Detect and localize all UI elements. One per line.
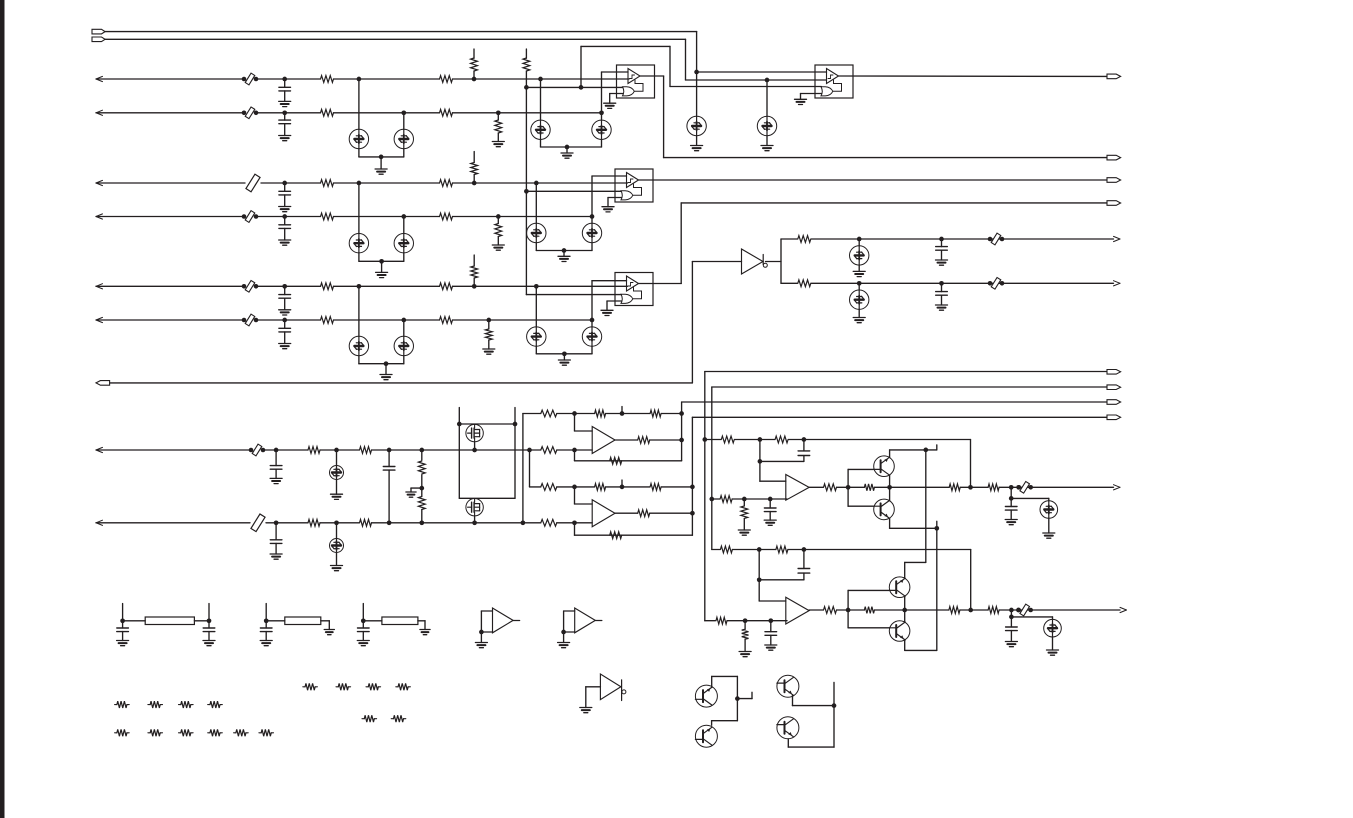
resistor bank C R73 zigzag [398,683,408,690]
wire ch1 out seg c [874,486,949,488]
wire ampA out seg [650,439,682,441]
wire Q5 top lateral [712,675,738,677]
protection diode D11 [582,223,601,242]
node ch1 toprow tap [702,437,707,442]
wire bus2 horizontal [105,38,685,40]
capacitor C2 [279,120,291,124]
wire branchA seg b [811,238,1113,240]
output arrow branchA [1114,236,1121,241]
wire ch2 tail drop [1010,610,1012,617]
wire C17 stub [1010,617,1012,627]
wire ch1 rail seg b [732,498,787,500]
op-amp U1A [617,65,655,98]
wire ch2 +in lead [759,600,786,602]
node ch1 loop tap [758,437,763,442]
wire R51 to ground [744,639,746,651]
wire C4 to ground [284,228,286,240]
wire D3 bottom stub [540,140,542,148]
node row5 cap tap [282,284,287,289]
wire ch1 out seg a [809,486,823,488]
wire row4 seg c [334,216,440,218]
wire supply rail E1 long [925,450,927,563]
resistor R42 [720,496,732,503]
wire U5 bracket bottom [564,631,575,633]
wire R19 stub [488,320,490,329]
wire D4 vertical to U1A +in [601,72,603,120]
wire Q2 emitter drop [889,519,891,529]
node ref bus pair2 tap [524,189,529,194]
resistor R20 [798,236,811,243]
wire row4 seg d [453,216,593,218]
wire D3 drop from row1 [540,79,542,120]
wire row2 seg d [453,112,602,114]
node bus1-opamp U2 junction [694,70,699,75]
wire R11 stub [497,113,499,120]
wire RC filter FL2 left stub [265,604,267,621]
resistor network RC filter FL2 [285,617,321,625]
wire R16 to row5 [473,278,475,286]
wire ch1 toprow seg a [705,439,721,441]
resistor R11 to gnd [495,120,502,133]
capacitor C12 [798,451,810,456]
wire R13 stub [497,217,499,224]
wire Q5 link stub right [737,698,752,700]
wire D2 bottom stub [403,149,405,157]
ground below D16 [853,271,865,276]
wire rail1 stub up [621,407,623,414]
wire ch1 toprow seg b [735,439,775,441]
capacitor C10 [270,540,282,544]
wire U5 bracket top [564,610,575,612]
input arrow row5 [96,284,103,289]
wire ch1 tail drop [1010,487,1012,498]
node ch2 tail mid [1009,615,1014,620]
resistor R5 [321,180,334,187]
wire Q7 link vertical [833,682,835,747]
wire Q7 bottom lateral [793,705,835,707]
resistor R50 [716,617,727,624]
resistor bank A R61 zigzag [150,701,160,708]
input arrow rowL1 [96,447,103,452]
wire C15 lower stub [803,573,805,580]
wire ampB out seg [650,512,693,514]
wire RC filter FL2 C left stub [265,621,267,628]
capacitor RC filter FL2 left [260,628,272,632]
ground at divider center [406,492,416,497]
protection diode D10 [527,223,546,242]
wire C6 stub [284,320,286,328]
resistor R27 [360,519,372,526]
node ch2 base node [846,608,851,613]
connector CN2 clock input [96,381,110,386]
resistor bank D R74 lead [374,718,376,720]
output arrow ch2 [1120,607,1127,612]
wire U1C output to CN3 [681,202,1107,204]
node D10-D11 ground junction [562,248,567,253]
capacitor C7 [936,247,948,251]
node branchB C8 tap [939,281,944,286]
ground below R43 [738,530,750,535]
ground below D7 [761,146,773,151]
resistor R19 to gnd [485,329,492,340]
ground below C3 [279,207,291,212]
ground below D20 [1043,533,1055,538]
transistor Q6 [695,725,717,747]
wire ch1 toprow seg c [789,439,971,441]
capacitor C3 [279,191,291,195]
wire ch2 rail seg a [705,620,715,622]
resistor R10 pullup [523,58,530,71]
wire RC filter FL1 C left stub [122,621,124,628]
node ch1 tail tap [1009,485,1014,490]
wire D12-D13 to ground [385,364,387,375]
node branchA C7 tap [939,237,944,242]
node D8-D9 ground junction [379,259,384,264]
wire D15 bottom stub [591,346,593,354]
wire rowL1 crossbus drop [529,450,531,487]
wire Rdiv top stub [525,49,527,58]
wire ch1 loop lower [760,460,804,462]
protection diode D9 [394,234,413,253]
node rowL1 Rdiv tap [419,448,424,453]
resistor R13 to gnd [495,224,502,237]
node row4 R13 tap [496,214,501,219]
wire row5 seg b [256,285,321,287]
node rail2 tap [572,448,577,453]
wire ampB lower feedback [575,534,693,536]
node RC filter FL1 output [207,618,212,623]
resistor bank B R64 [115,732,117,734]
node row1 D1 tap [357,77,362,82]
transistor Q7 [777,675,799,697]
wire C11 lower stub [388,470,390,523]
node D14-D15 ground junction [562,351,567,356]
wire R9 to row1 [473,71,475,79]
node D1-D2 ground junction [379,155,384,160]
wire D13 drop [403,320,405,336]
ground below C4 [279,240,291,245]
wire M2 to rowL2 [474,516,476,523]
resistor bank B R65 lead [160,732,162,734]
wire R16 top stub [473,255,475,266]
wire Q1 base lead [848,468,874,470]
wire ampB out line4 [692,416,1107,418]
ferrite bead FB10 [1016,604,1033,616]
wire rail3 seg d [661,486,692,488]
node row3 R12 tap [472,181,477,186]
ground RC filter FL3 left [357,641,369,646]
resistor R23 [360,447,372,454]
ground below D12-D13 [380,375,392,380]
wire Q7 emitter drop [792,695,794,706]
wire supply bus D [711,387,713,550]
input arrow row6 [96,317,103,322]
resistor R47 [988,484,999,491]
wire ch1 out seg d [960,486,988,488]
capacitor RC filter FL3 left [358,628,370,632]
node branchB D17 tap [857,281,862,286]
wire E1 rail link [905,561,926,563]
ferrite bead FB7 [988,277,1005,289]
transistor Q3 [889,577,910,598]
wire ch1 wrap drop [970,440,972,488]
resistor bank C R72 lead [378,686,380,688]
wire RC filter FL1 out lead [194,620,209,622]
resistor bank B R69 [259,732,261,734]
input arrow row3 [96,180,103,185]
wire ref to U1B gate [526,190,621,192]
node rail4 tap [572,520,577,525]
ground below U5 [558,643,570,648]
node RC filter FL1 input [120,618,125,623]
resistor R40 [721,436,734,443]
wire C9 to ground [275,469,277,478]
wire C8 to ground [941,295,943,305]
resistor R45 [864,484,874,491]
fuse F1 [246,174,260,192]
wire rowL1 seg d [372,449,541,451]
resistor R51 to gnd [742,629,749,639]
node row2 cap tap [282,110,287,115]
resistor R33 [541,447,557,454]
wire ampA -in drop [574,450,576,461]
wire ampA lower feedback [575,460,682,462]
wire RC filter FL1 right stub [208,604,210,621]
capacitor C14 [1005,507,1017,511]
wire D17 to ground [858,309,860,317]
wire reference link horizontal [581,45,670,47]
wire R12 to row3 [473,175,475,184]
wire M-block right stub [514,408,516,425]
wire rail1 seg d [661,413,681,415]
wire bus2 to U2 -input [686,79,827,81]
wire M-block right leg [514,424,516,498]
wire Q3 emitter rise [904,562,906,578]
protection diode D8 [349,234,368,253]
wire rail1 seg c [606,413,650,415]
capacitor C13 [764,508,776,512]
resistor R49 [776,546,788,553]
wire RC filter FL3 out drop [424,621,426,630]
wire U1C output rise [680,203,682,284]
ground RC filter FL1 left [117,641,129,646]
wire supply rail E2 long [936,528,938,650]
wire C5 stub [284,286,286,294]
node RC filter FL3 input [361,618,366,623]
wire rowL2 seg b [266,522,308,524]
wire D8 bottom stub [358,253,360,261]
protection diode D3 [531,120,550,139]
wire ch1 rail seg a [712,498,720,500]
resistor R29 [595,410,606,417]
node ch1 bead in [1016,485,1021,490]
connector CN4 pin 1 [1107,370,1121,375]
resistor R24 divider upper [418,461,425,474]
wire reference to U2 gate [670,86,821,88]
resistor bank A R61 lead [160,704,162,706]
resistor bank A R62 [179,704,181,706]
wire rail3 seg c [606,486,650,488]
node row1 R9 tap [472,77,477,82]
wire Q2 emitter rail [890,527,937,529]
wire C13 to ground [769,512,771,520]
node ch1 base node [846,485,851,490]
node row1 cap tap [282,77,287,82]
protection diode D1 [349,129,368,148]
resistor bank A R60 lead [127,704,129,706]
wire U1B gate ground lead [608,197,621,199]
wire D6 to ground [696,136,698,146]
node D3-D4 ground junction [565,145,570,150]
wire ch1 out seg b [837,486,865,488]
node Q7-Q8 link [832,703,837,708]
wire C2 to ground [284,124,286,136]
wire ampA output [615,439,638,441]
wire R25 upper stub [421,488,423,496]
resistor bank C R73 [396,686,398,688]
wire row2 seg c [334,112,440,114]
wire Q1 rail end stub [936,445,938,450]
wire ampB +in drop [574,487,576,504]
node rail1 tapA [572,411,577,416]
ground at U1C gate [601,310,613,315]
ground below C6 [279,344,291,349]
wire rail3 seg a [530,486,541,488]
wire U2 output to CN3 [839,75,1108,77]
wire bus2 vertical drop [685,39,687,80]
protection diode D18 [330,466,344,480]
wire C14 to ground [1010,510,1012,519]
node row2 D2 tap [401,110,406,115]
resistor bank C R70 [303,686,305,688]
resistor R1 [321,76,334,83]
resistor R31 [638,437,650,444]
wire bus1 vertical drop [696,32,698,117]
resistor R14 [321,283,334,290]
node rowL1 bus tap [527,448,532,453]
wire C7 to ground [941,250,943,260]
wire U4 bracket bottom [481,631,492,633]
wire D15 vertical to U1C +in [591,281,593,327]
resistor bank C R70 zigzag [305,683,315,690]
wire D19 to ground [336,553,338,566]
ground below D3-D4 [561,153,573,158]
wire Q2 collector rise [889,487,891,500]
wire ampA +in drop [574,414,576,432]
wire row6 seg b [256,319,321,321]
protection diode D7 [757,116,776,135]
wire RC filter FL3 C left stub [362,621,364,628]
wire Q1 emitter rail [890,449,937,451]
wire rail1 bus drop [522,414,524,523]
ground below C17 [1005,642,1017,647]
wire buffer U3 input [692,261,741,263]
ground below C16 [765,645,777,650]
wire clock line [110,382,693,384]
wire C16 stub [770,621,772,632]
wire ampA out line3 [682,401,1107,403]
node ch2 bead in [1016,608,1021,613]
node row3 D10 tap [534,181,539,186]
node ch2 C16 tap [768,618,773,623]
wire R12 top stub [473,152,475,163]
resistor bank D R74 zigzag [364,715,374,722]
wire D1 bottom stub [358,149,360,157]
ferrite bead FB6 [988,233,1005,245]
capacitor RC filter FL1 left [117,628,129,632]
node ch2 tail tap [1009,608,1014,613]
ground below C8 [936,305,948,310]
wire ch1 +in lead [760,480,786,482]
resistor bank D R75 lead [404,718,406,720]
node row4 D9 tap [401,214,406,219]
wire RC filter FL2 C left gnd [265,632,267,641]
wire C11 upper stub [388,450,390,467]
ground at U2 gate [795,99,807,104]
protection diode D16 [850,246,869,265]
wire row2 seg b [256,112,321,114]
wire ampB -in drop [574,523,576,535]
wire Q5 link drop [736,676,738,720]
wire C1 stub [284,79,286,87]
capacitor RC filter FL1 right [203,628,215,632]
wire U5 output stub [595,620,602,622]
node row6 D15 tap [590,318,595,323]
buffer U3 [742,249,764,274]
wire U1C output [639,283,682,285]
wire row1 seg a [96,78,244,80]
wire RC filter FL3 left stub [362,604,364,621]
wire U4 bracket top [481,610,492,612]
inverter U6 bar [621,680,623,701]
ground below R51 [739,652,751,657]
wire C7 stub [941,239,943,247]
capacitor C6 [279,328,291,332]
connector CN1 pin A [92,29,105,34]
op-amp U1B [615,169,653,202]
resistor bank B R64 lead [127,732,129,734]
op-amp U2 [815,65,853,98]
resistor R36 [650,484,661,491]
fuse F2 [251,514,265,532]
connector CN3 pin 3 [1107,178,1121,183]
resistor R38 [610,532,622,539]
wire D9 bottom stub [403,253,405,261]
ground below C14 [1005,520,1017,525]
wire RC filter FL1 in lead [123,620,146,622]
ground below C1 [279,101,291,106]
spare buffer U5 [575,608,596,633]
wire D7 drop [766,80,768,116]
wire D11 bottom stub [591,243,593,251]
buffer U3 output bubble [763,263,767,267]
wire D14 drop from row5 [535,286,537,327]
wire C3 to ground [284,195,286,207]
resistor R54 [949,607,960,614]
buffer U3 output bar [762,255,764,265]
wire row1 seg c [334,78,440,80]
wire ampB feedback vertical [691,417,693,535]
capacitor C17 [1006,627,1018,631]
clamp FET M2 [466,499,483,516]
wire D1-D2 to ground [380,157,382,169]
wire D17 stub [858,283,860,290]
node divider center [419,486,424,491]
wire RC filter FL3 C left gnd [362,632,364,641]
wire U3 output split vertical [780,239,782,283]
resistor R2 [440,76,453,83]
wire divider center to ground lead [411,487,422,489]
